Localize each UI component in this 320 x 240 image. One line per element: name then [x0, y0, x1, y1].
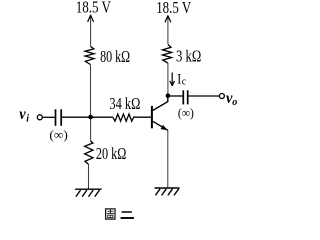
- svg-text:c: c: [182, 77, 187, 88]
- svg-text:34 kΩ: 34 kΩ: [109, 94, 140, 113]
- svg-text:20 kΩ: 20 kΩ: [96, 144, 127, 163]
- svg-text:i: i: [26, 114, 29, 125]
- svg-text:o: o: [232, 97, 237, 108]
- svg-text:80 kΩ: 80 kΩ: [100, 47, 130, 66]
- svg-text:(∞): (∞): [178, 106, 194, 120]
- svg-text:18.5 V: 18.5 V: [156, 0, 192, 17]
- svg-text:18.5 V: 18.5 V: [76, 0, 112, 16]
- svg-text:(∞): (∞): [49, 128, 68, 142]
- svg-text:3 kΩ: 3 kΩ: [176, 47, 201, 66]
